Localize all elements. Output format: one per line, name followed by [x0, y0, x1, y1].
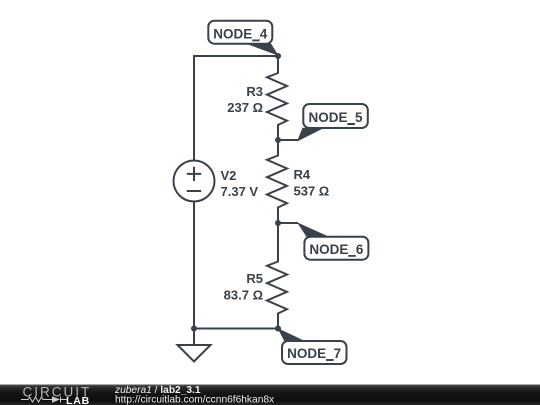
junction node 6 — [275, 220, 281, 226]
svg-text:R5: R5 — [246, 271, 263, 286]
svg-text:http://circuitlab.com/ccnn6f6h: http://circuitlab.com/ccnn6f6hkan8x — [115, 395, 274, 405]
svg-text:7.37 V: 7.37 V — [221, 184, 259, 199]
wire bottom horizontal — [194, 328, 278, 330]
svg-text:LAB: LAB — [66, 395, 90, 405]
svg-text:R3: R3 — [246, 84, 263, 99]
label R5 value — [224, 271, 263, 303]
node NODE_6 flag — [278, 222, 368, 259]
label R4 value — [294, 167, 330, 199]
resistor R4 — [267, 140, 287, 223]
node NODE_7 flag — [278, 328, 347, 364]
label V2 value — [221, 168, 259, 199]
svg-text:237 Ω: 237 Ω — [227, 100, 263, 115]
voltage source V2 — [174, 161, 215, 202]
junction node 5 — [275, 137, 281, 143]
svg-text:NODE_6: NODE_6 — [309, 242, 364, 257]
svg-text:NODE_5: NODE_5 — [308, 110, 363, 125]
wire left vertical lower — [193, 202, 195, 346]
svg-text:83.7 Ω: 83.7 Ω — [224, 288, 263, 303]
junction node 7 — [275, 326, 281, 332]
svg-text:V2: V2 — [221, 168, 237, 183]
svg-text:NODE_4: NODE_4 — [213, 26, 268, 41]
resistor R3 — [267, 56, 287, 140]
logo diode triangle — [52, 396, 60, 402]
label R3 value — [227, 84, 263, 115]
svg-text:537 Ω: 537 Ω — [294, 184, 330, 199]
resistor R5 — [267, 223, 287, 329]
junction left ground node — [191, 326, 197, 332]
svg-text:NODE_7: NODE_7 — [287, 346, 341, 361]
wire left vertical upper — [193, 55, 195, 161]
logo schematic strip: wire, resistor, wire, diode — [21, 397, 67, 403]
node NODE_5 flag — [278, 104, 368, 142]
node NODE_4 flag — [208, 21, 278, 56]
ground — [178, 345, 211, 362]
wire top horizontal — [194, 55, 278, 57]
junction node 4 — [275, 53, 281, 59]
svg-text:R4: R4 — [294, 167, 311, 182]
